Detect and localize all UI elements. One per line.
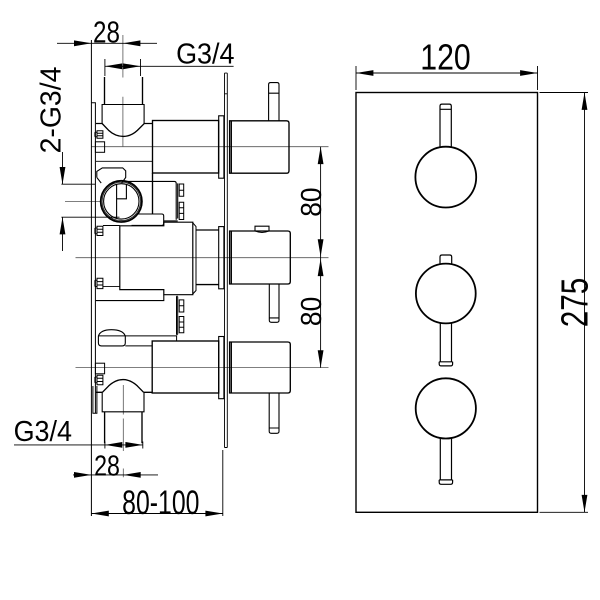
svg-text:G3/4: G3/4 [14,415,72,447]
arrow 28 bottom left [74,472,91,478]
arrow G3/4 top left [105,63,122,69]
top inlet union nut [102,105,144,124]
wall bracket foot [93,386,97,413]
arrow 120 right [520,70,537,76]
faceplate front view [356,93,538,513]
arrow 28 top left [74,40,91,46]
svg-text:2-G3/4: 2-G3/4 [35,67,67,154]
dimension 80 line [320,147,322,368]
middle handle stem [269,284,279,322]
mounting tab 1 [95,142,104,153]
arrow 80-100 left [91,511,108,517]
svg-text:120: 120 [420,38,470,78]
arrow 80 middle up [318,259,324,276]
bottom outlet pipe [105,412,142,444]
centerline middle valve [76,257,329,259]
top handle stem [269,83,279,121]
svg-text:80-100: 80-100 [122,484,199,522]
top knob circle [415,147,476,208]
dimension 2-G3/4 line [61,152,119,251]
arrow G3/4 top right [123,63,140,69]
bottom knob stem [439,438,452,484]
arrow 80 top up [318,147,324,164]
cartridge retaining bar [132,214,164,225]
lower check-valve cylinder [96,295,164,301]
cartridge inner step [117,185,127,199]
centerline cartridge [65,200,101,202]
arrow 80 bottom down [318,350,324,367]
mounting tab 2 [95,363,104,374]
diverter block [120,222,193,295]
top inlet elbow [96,124,153,137]
cartridge face outer circle [101,181,142,222]
cartridge face inner circle [104,184,139,219]
cartridge body [127,181,178,221]
centerline bottom valve [76,367,329,369]
svg-text:275: 275 [554,278,596,327]
arrow 120 left [356,70,373,76]
lower cylinder cap [177,296,178,334]
arrow 2-G3/4 upper [60,167,66,184]
bottom outlet elbow [96,380,152,393]
arrow 2-G3/4 lower [60,217,66,234]
cartridge face rim circle [102,182,140,220]
dimension G3/4 bottom leader [14,442,143,449]
middle handle [230,231,291,284]
centerline top inlet pipe [122,35,124,147]
middle knob circle [416,264,476,324]
top inlet pipe [105,77,143,105]
middle hub [219,227,224,289]
top body shoulder line [96,160,153,162]
dimension 275 line [540,93,589,513]
top hub [219,116,224,178]
middle knob stem [439,323,452,366]
arrow 28 bottom right [123,472,140,478]
dimension 28 top line [57,42,157,44]
middle handle tab [255,226,269,232]
cartridge hex bump [97,168,126,183]
arrow 80 middle down [318,239,324,256]
middle knob tab [440,255,452,264]
wall bracket front face [91,103,95,414]
dimension 120 line [356,66,538,90]
arrow 80-100 right [205,511,222,517]
screw boss lines [103,226,120,287]
bottom handle stem [269,393,279,433]
block right chamfer line [193,223,196,294]
screw 3 [95,278,103,288]
arrow G3/4 bottom left [105,442,122,448]
bottom knob circle [416,378,476,438]
bottom hub [219,337,224,399]
wall bracket back edge / extension line [90,40,92,516]
arrow G3/4 bottom right [125,442,142,448]
arrow 275 bottom [582,495,588,512]
diverter neck [196,230,219,285]
bottom valve body [152,341,219,393]
bump sleeve lines [98,336,176,346]
screw 2 [95,226,103,235]
lower hex bump [98,330,125,346]
centerline bottom outlet pipe [122,385,124,477]
faceplate bar side view [225,73,228,447]
arrow 28 top right [123,40,140,46]
screw 4 [95,375,103,384]
top valve body [153,121,219,174]
centerline top valve [92,146,329,148]
top knob stem [440,104,451,147]
cartridge thread stub [179,184,184,220]
svg-text:G3/4: G3/4 [176,38,234,70]
top handle [230,121,289,173]
dimension 80-100 line [91,450,222,516]
passage top body to cartridge bar [152,173,154,214]
bottom handle [230,342,291,393]
lower cap thread stub [179,300,184,333]
svg-text:80: 80 [295,187,327,216]
arrow 275 top [582,93,588,110]
dimension 28 bottom line [73,474,158,476]
dimension G3/4 top line and leader [105,59,234,76]
cartridge chord line [116,184,118,218]
svg-text:28: 28 [94,449,120,482]
svg-text:80: 80 [295,297,327,326]
svg-text:28: 28 [93,14,120,49]
bottom outlet union nut [102,392,144,412]
screw 1 [95,131,103,138]
